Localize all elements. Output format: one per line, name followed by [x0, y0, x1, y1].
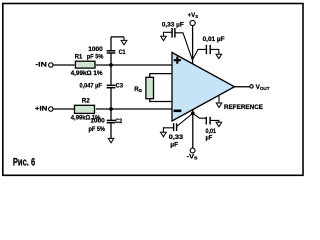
wire R1 to amp	[96, 64, 173, 66]
svg-text:REFERENCE: REFERENCE	[224, 105, 263, 111]
wire cap to supply	[175, 33, 193, 61]
svg-text:+VS: +VS	[188, 12, 199, 19]
ground bottom-left	[163, 128, 173, 132]
resistor R1	[75, 61, 95, 68]
svg-text:RG: RG	[134, 86, 142, 93]
svg-text:0,047 µF: 0,047 µF	[80, 83, 102, 90]
wire +IN to R2	[53, 108, 75, 110]
node junction bottom	[109, 107, 113, 111]
wire supply to 0,33 bottom	[177, 113, 193, 126]
svg-text:0,33: 0,33	[169, 134, 184, 141]
output terminal Vout	[250, 85, 253, 88]
svg-text:C3: C3	[116, 83, 124, 90]
svg-text:µF: µF	[170, 142, 178, 149]
svg-text:pF 5%: pF 5%	[89, 126, 106, 133]
capacitor 0,01uF bottom	[205, 117, 207, 125]
capacitor C3	[107, 84, 116, 86]
border frame	[3, 4, 303, 176]
svg-text:4,99kΩ 1%: 4,99kΩ 1%	[71, 70, 104, 77]
wire -IN to R1	[53, 64, 75, 66]
output wire	[235, 86, 250, 88]
wire +Vs to amp	[192, 26, 194, 64]
ground top-left	[164, 32, 173, 36]
wire C3 branch	[110, 65, 112, 85]
svg-text:-IN: -IN	[35, 61, 47, 68]
svg-text:R1: R1	[75, 53, 83, 60]
wire R2 to amp	[96, 108, 173, 110]
wire supply to 0,01 bottom	[193, 113, 207, 118]
REFERENCE pin	[218, 95, 220, 103]
-Vs terminal	[192, 109, 194, 148]
op-amp U1	[172, 53, 235, 122]
resistor Rg	[146, 77, 154, 98]
svg-text:-VS: -VS	[187, 154, 198, 161]
svg-text:+IN: +IN	[35, 105, 48, 112]
minus input sign	[174, 110, 182, 113]
node junction top	[109, 63, 113, 67]
capacitor C1	[107, 50, 116, 52]
svg-text:R2: R2	[82, 98, 91, 105]
svg-text:µF: µF	[206, 134, 213, 141]
wire C2 branch	[110, 109, 112, 120]
ground bottom-right	[210, 120, 219, 122]
ground C1	[123, 37, 125, 41]
svg-text:pF 5%: pF 5%	[87, 53, 104, 60]
wire supply to cap	[193, 49, 207, 59]
svg-text:1000: 1000	[90, 118, 105, 125]
svg-text:0,33 µF: 0,33 µF	[162, 22, 184, 29]
wire Rg top stub	[150, 74, 173, 78]
svg-text:VOUT: VOUT	[256, 84, 270, 91]
svg-text:C2: C2	[115, 118, 122, 125]
wire Rg bottom stub	[150, 99, 173, 102]
capacitor C2	[107, 119, 116, 121]
wire C1 branch	[110, 53, 112, 65]
ground top-right	[210, 49, 219, 54]
svg-text:C1: C1	[119, 49, 126, 56]
svg-text:0,01 µF: 0,01 µF	[203, 36, 225, 43]
plus input sign	[174, 57, 181, 64]
ground C2	[108, 138, 114, 142]
capacitor 0,33uF bottom	[173, 123, 175, 131]
svg-text:1000: 1000	[88, 46, 103, 53]
resistor R2	[75, 105, 95, 113]
svg-text:Рис. 6: Рис. 6	[13, 157, 35, 169]
